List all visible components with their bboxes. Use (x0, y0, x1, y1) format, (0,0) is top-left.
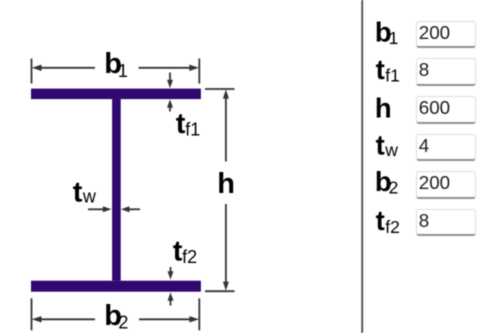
svg-text:t: t (376, 205, 385, 236)
dimension b2 right extension tick (198, 298, 200, 330)
vertical divider line (361, 0, 363, 333)
input t_f1 value 8 (416, 58, 476, 86)
dimension b2 left extension tick (31, 298, 33, 330)
dimension h top extension line (205, 88, 235, 90)
I-beam web (112, 99, 121, 281)
svg-text:t: t (73, 177, 83, 209)
input b2 value 200 (416, 171, 476, 199)
svg-text:h: h (375, 92, 392, 123)
svg-text:t: t (376, 129, 385, 160)
dimension b2 line right segment (139, 318, 193, 320)
arrowhead h down (223, 282, 229, 291)
input b1 value 200 (416, 21, 476, 49)
arrowhead t_f2 down (168, 271, 174, 279)
svg-text:h: h (217, 168, 235, 200)
svg-text:2: 2 (118, 312, 128, 332)
dimension t_w left arrow line (88, 208, 104, 210)
dimension b1 line left segment (38, 67, 95, 69)
dimension b2 line left segment (38, 318, 95, 320)
arrowhead t_w right (103, 206, 112, 212)
arrowhead t_f1 up (167, 99, 173, 107)
svg-text:w: w (82, 186, 97, 206)
dimension t_f1 upper arrow line (169, 73, 171, 82)
arrowhead t_f1 down (167, 80, 173, 88)
dimension t_f2 upper arrow line (170, 267, 172, 273)
arrowhead h up (223, 89, 229, 98)
arrowhead b2 left (32, 316, 42, 322)
dimension h bottom extension line (205, 290, 235, 292)
svg-text:f2: f2 (182, 247, 197, 267)
input t_w value 4 (416, 134, 476, 162)
I-beam top flange (31, 89, 201, 100)
arrowhead t_f2 up (168, 292, 174, 300)
arrowhead b1 right (189, 65, 199, 71)
svg-text:w: w (384, 140, 398, 160)
svg-text:f2: f2 (385, 217, 400, 237)
svg-text:1: 1 (118, 61, 128, 81)
dimension b1 right extension tick (198, 59, 200, 84)
dimension t_w right arrow line (130, 208, 141, 210)
arrowhead t_w left (121, 206, 130, 212)
svg-text:f1: f1 (185, 120, 200, 140)
I-beam bottom flange (31, 281, 201, 292)
dimension b1 left extension tick (31, 59, 33, 84)
svg-text:2: 2 (389, 177, 399, 197)
input h value 600 (416, 96, 476, 124)
dimension t_f1 lower arrow line (169, 106, 171, 112)
arrowhead b1 left (32, 65, 42, 71)
svg-text:1: 1 (389, 28, 399, 48)
dimension t_f2 lower arrow line (170, 300, 172, 306)
dimension h line lower segment (225, 204, 227, 284)
svg-text:t: t (376, 54, 385, 85)
dimension b1 line right segment (139, 67, 194, 69)
input t_f2 value 8 (416, 209, 476, 237)
svg-text:f1: f1 (385, 66, 400, 86)
dimension h line upper segment (225, 97, 227, 162)
svg-text:t: t (176, 108, 186, 140)
arrowhead b2 right (189, 316, 199, 322)
